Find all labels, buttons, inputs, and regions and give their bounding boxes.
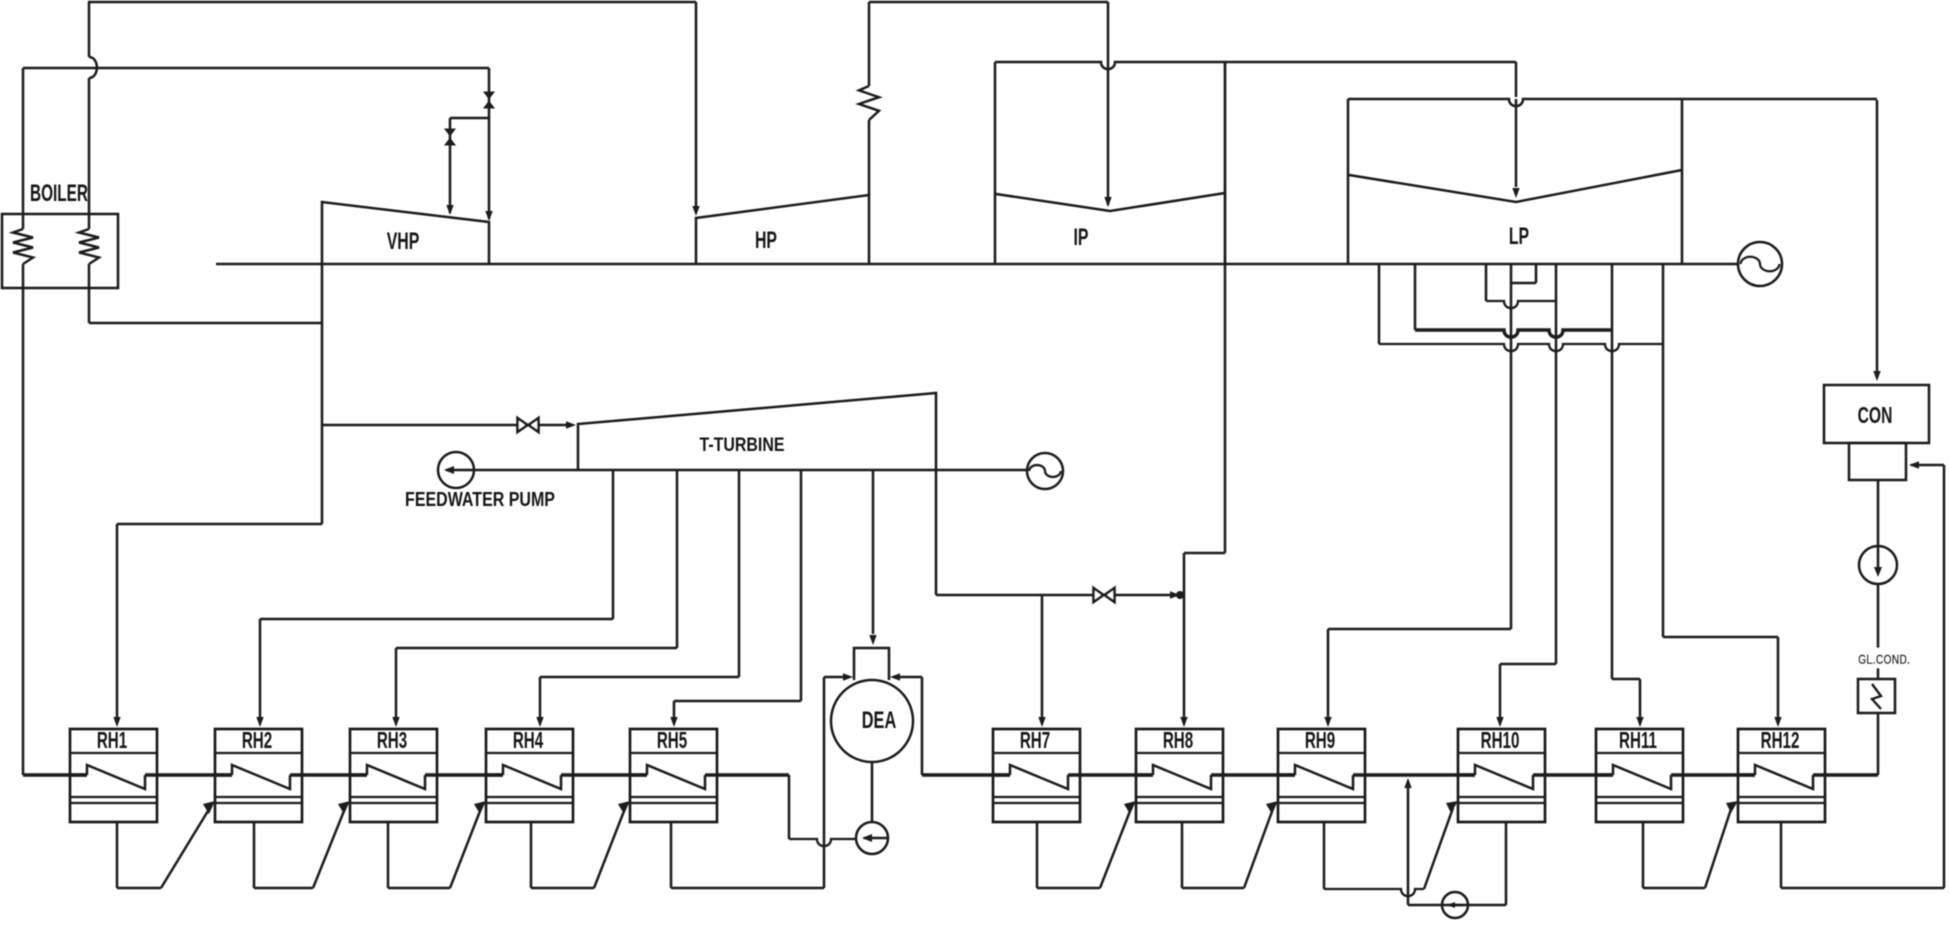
wire: LP extraction line to RH10 (x=1556)	[1555, 264, 1558, 664]
wire: feedwater trunk segment L1	[145, 773, 232, 776]
wire: T-tap2 drop (x=677)	[676, 470, 679, 648]
pump below DEA circle	[856, 822, 888, 854]
arrow into RH1	[113, 717, 120, 727]
wire: condenser return riser (x=1944)	[1943, 465, 1946, 888]
boiler box	[2, 214, 118, 288]
heater RH5 exchange symbol	[647, 765, 705, 789]
wire: feedwater trunk into RH1 from boiler downcomer	[23, 773, 87, 776]
valve on T-turbine steam line	[518, 418, 528, 432]
arrow into RH11	[1636, 717, 1643, 727]
wire: RH10 feed run (y=664)	[1500, 663, 1556, 666]
wire: RH10 drain to pump	[1505, 822, 1508, 905]
arrow RH4 drain into RH5	[618, 801, 630, 814]
heater RH10 exchange symbol	[1475, 765, 1533, 789]
wire: VHP second admission drop	[449, 118, 452, 213]
wire: LP exhaust drop to condenser (x=1877)	[1876, 100, 1879, 378]
wire: VHP admission drop	[488, 68, 491, 219]
gland condenser label	[1856, 648, 1914, 668]
wire: LP extraction 1 drop	[1378, 264, 1381, 344]
heater RH3 trunk entry stub	[349, 773, 367, 776]
svg-text:RH7: RH7	[1020, 728, 1050, 754]
svg-text:RH3: RH3	[377, 728, 407, 754]
wire: feedwater trunk segment L3	[425, 773, 503, 776]
shaft line of main turbine train	[216, 263, 1738, 266]
heater RH4 lower lines	[486, 796, 573, 798]
arrow into condenser CON	[1873, 371, 1880, 381]
heater RH8 lower lines	[1136, 796, 1223, 798]
wire: LP extraction line to RH11 (x=1612)	[1611, 264, 1614, 679]
wire: T-tap5 drop to DEA	[872, 470, 875, 634]
wire: reheat riser hop to boiler	[88, 78, 91, 229]
wire: LP extraction 2 drop	[1414, 264, 1417, 330]
wire: IP extraction jog (y=553)	[1184, 552, 1225, 555]
wire: T-tap3 drop (x=739)	[738, 470, 741, 677]
turbine IP box sides	[995, 62, 1225, 264]
svg-text:FEEDWATER PUMP: FEEDWATER PUMP	[405, 488, 555, 510]
heater RH11 lower lines	[1596, 796, 1683, 798]
wire: RH7 drain diagonal to RH8	[1100, 806, 1132, 888]
wire: feedwater trunk DEA riser to RH7	[922, 773, 1010, 776]
wire: RH7 drain	[1036, 822, 1039, 888]
heater RH12 lower lines	[1738, 796, 1825, 798]
arrow RH2 drain into RH3	[338, 801, 350, 814]
heater RH3 lower lines	[350, 796, 437, 798]
svg-text:RH12: RH12	[1761, 728, 1800, 754]
arrow RH3 drain into RH4	[474, 801, 486, 814]
wire: RH11 drain	[1642, 822, 1645, 888]
wire: crossover drop into LP	[1515, 62, 1518, 97]
wire: T-turbine exhaust drop (x=936)	[935, 470, 938, 595]
svg-text:RH10: RH10	[1481, 728, 1520, 754]
arrow into RH7	[1038, 717, 1045, 727]
arrow into RH10	[1496, 717, 1503, 727]
wire: condenser return run (y=465)	[1911, 464, 1944, 467]
heater RH11 trunk entry stub	[1595, 773, 1613, 776]
heater RH2 exchange symbol	[232, 765, 290, 789]
wire: HP exhaust drop to IP	[1107, 2, 1110, 205]
turbine IP top edge with notch	[995, 62, 1516, 69]
heater RH12 trunk entry stub	[1737, 773, 1755, 776]
feedwater heater RH7 box	[993, 729, 1080, 822]
feedwater heater RH3 box	[350, 729, 437, 822]
wire: DEA right inlet run (y=677)	[898, 676, 922, 679]
heater RH3 label line	[350, 752, 437, 754]
wire: RH9 feed run (y=629)	[1328, 628, 1511, 631]
turbine VHP outline	[322, 202, 489, 264]
arrow into T-turbine inlet	[566, 421, 576, 428]
wire: DEA outlet down	[871, 762, 874, 822]
wire: LP extraction 1 run (y=344)	[1379, 344, 1663, 351]
turbine LP top edge with notch and line to condenser	[1348, 99, 1877, 106]
arrow drain pump into feedwater trunk	[1404, 778, 1411, 788]
wire: RH5 drain to DEA riser	[670, 822, 673, 888]
wire: RH9 feed drop	[1327, 629, 1330, 724]
boiler coil right (reheater)	[79, 229, 99, 264]
wire: DEA right inlet riser (x=922)	[921, 677, 924, 775]
wire: RH8 drain	[1181, 822, 1184, 888]
svg-text:VHP: VHP	[387, 229, 420, 255]
heater RH2 trunk entry stub	[214, 773, 232, 776]
wire: T-tap4 drop (x=801)	[800, 470, 803, 701]
heater RH8 exchange symbol	[1153, 765, 1211, 789]
wire: feedwater trunk segment L2	[290, 773, 367, 776]
arrow RH8 drain into RH9	[1266, 801, 1278, 814]
wire: RH9 drain	[1323, 822, 1326, 889]
svg-text:BOILER: BOILER	[30, 181, 88, 207]
feedwater heater RH10 box	[1458, 729, 1545, 822]
heater RH1 exchange symbol	[87, 765, 145, 789]
wire: LP extraction 3 drop	[1485, 264, 1488, 301]
gland condenser GL.COND box	[1858, 679, 1895, 713]
wire: RH8 drain diagonal to RH9	[1244, 806, 1274, 888]
wire: feedwater trunk segment L4	[561, 773, 647, 776]
arrow into RH3	[392, 717, 399, 727]
heater RH9 label line	[1278, 752, 1365, 754]
wire: RH5 feed run (y=701)	[674, 700, 801, 703]
arrow into RH5	[670, 717, 677, 727]
heater RH9 exchange symbol	[1295, 765, 1353, 789]
svg-text:RH5: RH5	[657, 728, 687, 754]
heater RH2 label line	[215, 752, 302, 754]
pump below DEA arrow	[864, 837, 887, 840]
svg-text:RH1: RH1	[97, 728, 127, 754]
arrow into RH4	[536, 717, 543, 727]
wire: main steam line boiler to VHP valve (y=68)	[23, 67, 489, 70]
heater RH1 lower lines	[70, 796, 157, 798]
wire: RH4 feed drop	[539, 677, 542, 724]
wire: DEA left inlet run (y=677)	[824, 676, 845, 679]
heater RH7 lower lines	[993, 796, 1080, 798]
wire: RH2 drain	[253, 822, 256, 888]
wire: RH1 drain diagonal to RH2	[161, 806, 211, 888]
turbine LP V profile	[1349, 170, 1682, 202]
heater RH4 trunk entry stub	[485, 773, 503, 776]
svg-text:RH8: RH8	[1163, 728, 1193, 754]
heater RH11 exchange symbol	[1613, 765, 1671, 789]
svg-text:GL.COND.: GL.COND.	[1858, 652, 1910, 668]
feedwater heater RH12 box	[1738, 729, 1825, 822]
heater RH8 label line	[1136, 752, 1223, 754]
wire: IP extraction drop (x=1225)	[1224, 62, 1227, 553]
condenser hotwell box	[1849, 443, 1906, 480]
wire: drain pump discharge riser (x=1408)	[1407, 781, 1410, 905]
svg-text:HP: HP	[755, 228, 777, 254]
heater RH10 trunk entry stub	[1457, 773, 1475, 776]
valve on T-turbine exhaust	[1094, 588, 1104, 602]
heater RH2 lower lines	[215, 796, 302, 798]
pump FEEDWATER PUMP arrow	[446, 469, 473, 472]
wire: feedwater trunk segment R3	[1353, 773, 1475, 776]
heater RH5 lower lines	[630, 796, 717, 798]
generator G1 circle	[1738, 242, 1782, 286]
wire: RH3 feed drop	[395, 648, 398, 724]
feedwater heater RH1 box	[70, 729, 157, 822]
condenser CON box	[1824, 385, 1929, 443]
wire: LP extraction 2 run (y=330, bold)	[1415, 330, 1612, 337]
wire: boiler left coil top riser	[22, 68, 25, 229]
turbine IP V profile	[996, 193, 1225, 211]
arrow into DEA right	[890, 673, 900, 680]
generator G1 sine wave	[1741, 257, 1780, 272]
wire hop: reheat riser over main steam line	[89, 57, 97, 78]
wire: RH12 feed drop	[1777, 637, 1780, 724]
wire: RH7 feed drop	[1041, 595, 1044, 724]
heater RH9 lower lines	[1278, 796, 1365, 798]
arrow into LP center	[1512, 188, 1519, 198]
drain pump arrow	[1449, 904, 1463, 907]
generator G2 sine wave	[1029, 465, 1061, 477]
wire: boiler right coil lower lead	[88, 264, 91, 323]
arrow into RH8	[1180, 717, 1187, 727]
feedwater heater RH8 box	[1136, 729, 1223, 822]
wire: cold reheat riser from HP	[868, 120, 871, 195]
wire: feedwater pump discharge run (y=839)	[789, 839, 856, 846]
arrow into VHP right inlet	[485, 211, 492, 221]
wire: RH2 feed drop	[259, 619, 262, 724]
wire: RH4 drain diagonal to RH5	[594, 806, 626, 888]
wire: feedwater trunk segment R2	[1211, 773, 1295, 776]
arrow into RH9	[1324, 717, 1331, 727]
heater RH10 label line	[1458, 752, 1545, 754]
feedwater heater RH9 box	[1278, 729, 1365, 822]
wire: VHP admission branch (y=118)	[450, 117, 489, 120]
arrow RH11 drain into RH12	[1726, 801, 1738, 813]
wire: feedwater trunk segment R5	[1671, 773, 1755, 776]
wire: condensate pump to gland condenser	[1877, 584, 1880, 679]
wire: RH2 feed run (y=619)	[260, 618, 613, 621]
wire: RH1 feed drop	[116, 524, 119, 724]
wire: cold reheat riser top	[868, 2, 871, 86]
wire: feedwater trunk segment R4	[1533, 773, 1613, 776]
arrow at exhaust junction	[1170, 591, 1180, 598]
svg-text:T-TURBINE: T-TURBINE	[699, 434, 784, 456]
arrow RH9 drain into RH10	[1446, 801, 1458, 813]
wire: RH3 drain	[387, 822, 390, 888]
wire: condensate down to RH12 (x=1878)	[1877, 713, 1880, 775]
svg-text:RH2: RH2	[242, 728, 272, 754]
wire: RH1 drain	[116, 822, 119, 888]
svg-text:DEA: DEA	[862, 707, 897, 734]
drain pump circle	[1442, 892, 1468, 918]
arrow into RH12	[1774, 717, 1781, 727]
deaerator DEA vessel circle	[831, 680, 913, 762]
valve V1 on VHP admission	[483, 92, 495, 100]
heater RH8 trunk entry stub	[1135, 773, 1153, 776]
wire: DEA left inlet riser (x=824)	[823, 677, 826, 888]
feedwater heater RH2 box	[215, 729, 302, 822]
deaerator DEA neck	[854, 648, 889, 680]
condensate pump circle	[1859, 546, 1897, 584]
wire: T-turbine shaft	[474, 469, 1027, 472]
wire: RH12 drain to condenser	[1780, 822, 1783, 888]
wire: hotwell to condensate pump	[1877, 480, 1880, 546]
wire: T-turbine steam line (y=425)	[322, 424, 570, 427]
valve V2 on VHP branch	[444, 129, 456, 137]
arrow into DEA neck	[869, 635, 876, 645]
feedwater heater RH5 box	[630, 729, 717, 822]
heater RH10 lower lines	[1458, 796, 1545, 798]
wire: LP extraction 4 stub run (y=283)	[1511, 282, 1536, 285]
wire: RH11 feed run (y=679)	[1612, 678, 1640, 681]
turbine T-TURBINE outline	[578, 393, 936, 470]
wire: feedwater trunk segment L5	[705, 773, 716, 776]
wire: RH5 feed drop	[673, 701, 676, 724]
heater RH5 label line	[630, 752, 717, 754]
heater RH3 exchange symbol	[367, 765, 425, 789]
arrow into RH2	[256, 717, 263, 727]
feedwater heater RH4 box	[486, 729, 573, 822]
wire: RH9 drain diagonal to RH10	[1424, 808, 1453, 889]
arrow into DEA left	[843, 673, 853, 680]
heater RH9 trunk entry stub	[1277, 773, 1295, 776]
svg-text:CON: CON	[1858, 403, 1893, 429]
wire: RH4 feed run (y=677)	[540, 676, 739, 679]
wire: LP extraction line to RH9 (x=1511)	[1510, 264, 1513, 629]
wire: VHP exhaust drop (x=322)	[321, 264, 324, 524]
arrow into VHP top	[446, 205, 453, 215]
svg-text:IP: IP	[1074, 225, 1089, 251]
wire: T-tap1 drop (x=613)	[612, 470, 615, 619]
arrow RH7 drain into RH8	[1124, 801, 1136, 814]
heater RH12 exchange symbol	[1755, 765, 1813, 789]
heater RH4 exchange symbol	[503, 765, 561, 789]
wire: LP extraction 3 run (y=301)	[1486, 301, 1556, 308]
gland condenser symbol	[1872, 684, 1881, 709]
wire: feedwater trunk RH5 to riser	[716, 773, 789, 776]
heater RH5 trunk entry stub	[629, 773, 647, 776]
wire: hot reheat drop to HP	[695, 2, 698, 207]
wire: boiler left coil downcomer	[22, 264, 25, 775]
wire: cold reheat return run (y=323)	[89, 322, 322, 325]
heater RH1 trunk entry stub	[69, 773, 87, 776]
heater RH4 label line	[486, 752, 573, 754]
generator G2 circle (T-turbine)	[1027, 453, 1063, 489]
heater RH7 label line	[993, 752, 1080, 754]
wire: RH4 drain	[530, 822, 533, 888]
wire: reheat riser above hop	[88, 2, 91, 57]
feedwater heater RH11 box	[1596, 729, 1683, 822]
wire: RH11 drain diagonal to RH12	[1705, 806, 1732, 888]
wire: RH11 feed drop	[1639, 679, 1642, 724]
wire: T-turbine exhaust run (y=595)	[936, 594, 1176, 597]
svg-text:LP: LP	[1509, 224, 1529, 250]
turbine LP sides	[1348, 99, 1682, 263]
arrow into HP inlet	[692, 206, 699, 216]
resistor-style reheater symbol on cold reheat	[859, 86, 879, 120]
heater RH7 trunk entry stub	[992, 773, 1010, 776]
wire: RH12 feed run (y=637)	[1663, 636, 1778, 639]
wire: RH3 drain diagonal to RH4	[450, 806, 482, 888]
svg-text:RH11: RH11	[1619, 728, 1657, 754]
condensate pump arrow	[1877, 547, 1880, 572]
wire: LP extraction 4 stub drop	[1535, 264, 1538, 283]
wire: LP extraction line to RH12 (x=1663)	[1662, 264, 1665, 637]
wire: condensate into RH12 (y=775)	[1813, 773, 1878, 776]
wire: hot reheat top line (y=2)	[88, 1, 696, 4]
heater RH7 exchange symbol	[1010, 765, 1068, 789]
wire: RH8 feed drop	[1183, 553, 1186, 724]
heater RH1 label line	[70, 752, 157, 754]
wire: feedwater trunk segment R1	[1068, 773, 1153, 776]
arrow into IP center	[1104, 197, 1111, 207]
wire: reheat top line 2 (y=2)	[869, 1, 1108, 4]
wire: RH2 drain diagonal to RH3	[313, 806, 346, 888]
pump FEEDWATER PUMP circle	[438, 452, 474, 488]
wire: RH3 feed run (y=648)	[396, 647, 677, 650]
heater RH12 label line	[1738, 752, 1825, 754]
wire: feedwater riser to RH5 (x=787)	[788, 775, 791, 839]
wire: LP admission arrow line	[1515, 99, 1518, 187]
heater RH11 label line	[1596, 752, 1683, 754]
junction dot at RH8 feed	[1176, 591, 1184, 599]
boiler coil left (main steam generator)	[13, 229, 33, 264]
wire: RH10 feed drop	[1499, 664, 1502, 724]
svg-text:RH4: RH4	[513, 728, 543, 754]
wire: RH1 feed run (y=524)	[117, 523, 322, 526]
turbine HP outline	[696, 195, 869, 264]
arrow RH1 drain into RH2	[203, 801, 215, 814]
svg-text:RH9: RH9	[1305, 728, 1335, 754]
arrow into condenser hotwell	[1909, 461, 1919, 468]
